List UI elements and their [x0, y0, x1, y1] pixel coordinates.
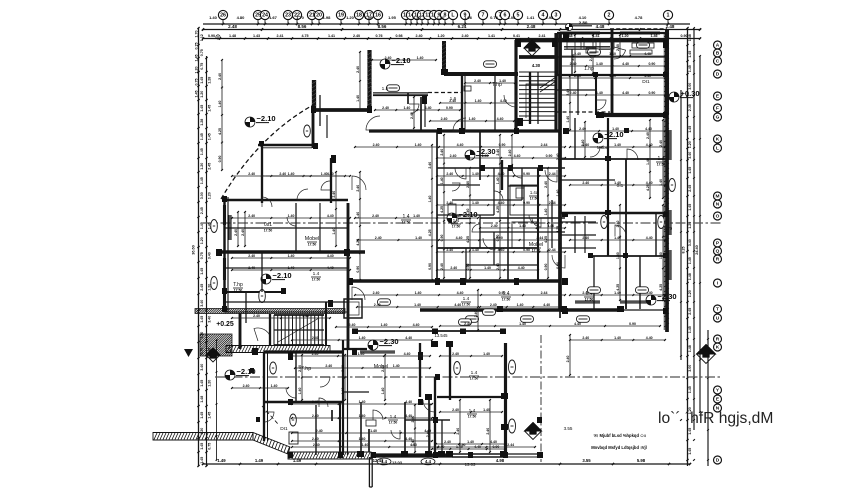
svg-text:2.40: 2.40 — [356, 66, 360, 73]
svg-text:2.40: 2.40 — [491, 224, 498, 228]
lower-left stair2 treads — [274, 315, 324, 345]
svg-text:4.40: 4.40 — [327, 266, 334, 270]
svg-text:1.40: 1.40 — [456, 445, 463, 449]
svg-text:1.40: 1.40 — [612, 127, 619, 131]
mobel room bottom y392 — [343, 391, 369, 393]
svg-text:3.40: 3.40 — [200, 300, 204, 307]
svg-text:T: T — [716, 306, 719, 312]
balcony fixtures row below right block — [466, 316, 590, 323]
right unit interior x656 — [655, 213, 657, 256]
svg-text:0.76: 0.76 — [375, 34, 382, 38]
svg-text:2.40: 2.40 — [440, 263, 444, 270]
svg-text:4.25: 4.25 — [356, 239, 360, 246]
svg-text:1.40: 1.40 — [411, 439, 415, 446]
svg-text:2.40: 2.40 — [646, 132, 650, 139]
svg-text:1.45: 1.45 — [200, 105, 204, 112]
left wing windows — [223, 205, 225, 308]
svg-text:Mobel: Mobel — [529, 242, 543, 248]
svg-text:1.40: 1.40 — [519, 224, 526, 228]
left wing partitions extra — [224, 176, 348, 323]
svg-text:3.40: 3.40 — [207, 316, 211, 323]
svg-text:2.45: 2.45 — [200, 284, 204, 291]
middle big wall y283 — [348, 279, 560, 282]
svg-text:1.40: 1.40 — [609, 52, 616, 56]
svg-text:1.70: 1.70 — [296, 15, 305, 20]
balcony rail right lower — [559, 310, 561, 318]
svg-text:1.45: 1.45 — [200, 412, 204, 419]
dashed canopy y92 middle — [428, 92, 462, 94]
svg-text:1.40: 1.40 — [359, 336, 366, 340]
svg-text:4.40: 4.40 — [498, 248, 505, 252]
svg-text:1.40: 1.40 — [359, 400, 366, 404]
svg-text:1.40: 1.40 — [428, 196, 432, 203]
svg-text:4.75: 4.75 — [301, 34, 308, 38]
svg-text:7: 7 — [482, 13, 485, 19]
svg-text:2.45: 2.45 — [207, 163, 211, 170]
spot level -2.30 center — [593, 130, 624, 143]
svg-text:1.40: 1.40 — [472, 248, 479, 252]
svg-text:1.40: 1.40 — [614, 336, 621, 340]
svg-text:0.98: 0.98 — [395, 34, 402, 38]
right vertical dimension chains — [680, 27, 709, 466]
svg-text:1.98: 1.98 — [323, 15, 332, 20]
svg-text:1.40: 1.40 — [472, 201, 479, 205]
svg-text:1.70: 1.70 — [195, 30, 199, 37]
left entry block hatched — [178, 334, 255, 356]
svg-text:2.40: 2.40 — [248, 214, 255, 218]
svg-text:1.4: 1.4 — [471, 370, 478, 376]
room labels — [233, 66, 673, 467]
right unit divider y213 — [560, 212, 667, 215]
svg-text:2.40: 2.40 — [441, 117, 448, 121]
svg-text:4.40: 4.40 — [425, 106, 432, 110]
svg-text:2.40: 2.40 — [450, 266, 457, 270]
svg-text:1.40: 1.40 — [393, 364, 400, 368]
svg-text:1.40: 1.40 — [415, 236, 422, 240]
spot level -2.10 left upper — [245, 114, 276, 127]
bottom rooms outline — [340, 343, 506, 457]
svg-text:4.40: 4.40 — [457, 143, 464, 147]
svg-text:1.20: 1.20 — [200, 163, 204, 170]
left wing south hatched band y311 — [190, 309, 351, 314]
svg-text:0.75: 0.75 — [195, 42, 199, 49]
svg-text:D: D — [716, 457, 720, 463]
lower room partition x420 — [419, 343, 421, 397]
svg-text:2.40: 2.40 — [372, 214, 379, 218]
svg-text:0.90: 0.90 — [466, 264, 470, 271]
svg-text:1.45: 1.45 — [200, 268, 204, 275]
svg-text:1.48: 1.48 — [688, 34, 692, 41]
svg-text:1.40: 1.40 — [544, 209, 548, 216]
left wing east wall upper x331 — [330, 158, 332, 203]
svg-text:C: C — [716, 58, 720, 64]
svg-text:2.40: 2.40 — [450, 154, 457, 158]
svg-text:1.45: 1.45 — [195, 90, 199, 97]
svg-text:13.545: 13.545 — [434, 333, 448, 338]
spot level -2.30 mid — [465, 147, 496, 160]
svg-text:E: E — [716, 93, 719, 99]
svg-text:4.40: 4.40 — [622, 62, 629, 66]
right block room partitions — [557, 57, 667, 309]
svg-text:4.40: 4.40 — [405, 336, 412, 340]
svg-text:1.40: 1.40 — [359, 437, 366, 441]
canopy dashed line top-right — [610, 28, 667, 30]
svg-text:3.00: 3.00 — [200, 192, 204, 199]
svg-text:0.90: 0.90 — [523, 248, 530, 252]
svg-text:2.40: 2.40 — [452, 352, 459, 356]
upper room partition x495 — [494, 76, 496, 131]
svg-text:2.45: 2.45 — [688, 104, 692, 111]
dashed diagonal lower — [262, 406, 278, 424]
svg-text:1.40: 1.40 — [646, 158, 650, 165]
ellipse label 1.4 bottom — [377, 458, 391, 465]
middle partition y218 — [480, 217, 565, 219]
svg-text:3: 3 — [555, 13, 558, 19]
piers on y331 — [352, 329, 506, 335]
svg-text:4.25: 4.25 — [544, 236, 548, 243]
svg-text:0s1: 0s1 — [264, 222, 272, 228]
svg-text:0.90: 0.90 — [492, 445, 499, 449]
fixture oval near stub — [304, 125, 311, 137]
retaining hatched diagonal — [253, 433, 290, 455]
svg-text:4.48: 4.48 — [596, 24, 605, 29]
svg-text:0.90: 0.90 — [496, 235, 500, 242]
svg-text:0.75: 0.75 — [207, 443, 211, 450]
svg-text:2.40: 2.40 — [446, 172, 453, 176]
svg-text:0.90: 0.90 — [544, 264, 548, 271]
svg-text:17.50: 17.50 — [462, 303, 471, 307]
svg-text:0.75: 0.75 — [195, 78, 199, 85]
svg-text:4.80: 4.80 — [237, 15, 246, 20]
right unit interior x608 — [607, 118, 609, 256]
svg-text:4.40: 4.40 — [622, 91, 629, 95]
svg-text:1.45: 1.45 — [688, 326, 692, 333]
svg-text:1.40: 1.40 — [616, 252, 620, 259]
svg-text:1.45: 1.45 — [207, 133, 211, 140]
svg-text:2.44: 2.44 — [541, 143, 548, 147]
svg-text:17.50: 17.50 — [452, 225, 461, 229]
svg-text:1.40: 1.40 — [288, 254, 295, 258]
entry door arc — [254, 328, 270, 341]
stair bottom pier — [517, 118, 523, 126]
bottom rooms partitions extra — [361, 405, 450, 455]
middle interior wall x480 — [479, 131, 481, 180]
north arrow left entry — [206, 348, 220, 362]
svg-text:1.4: 1.4 — [469, 408, 476, 414]
svg-text:4.25: 4.25 — [616, 284, 620, 291]
svg-text:4.40: 4.40 — [456, 236, 463, 240]
svg-text:4.25: 4.25 — [440, 206, 444, 213]
wall y131 under middle rooms — [369, 129, 560, 132]
svg-text:0.75: 0.75 — [200, 63, 204, 70]
top dimension chain line B (major) — [202, 24, 701, 31]
svg-text:1.40: 1.40 — [413, 15, 422, 20]
svg-text:2.40: 2.40 — [616, 44, 620, 51]
svg-text:0.90: 0.90 — [680, 34, 687, 38]
pier columns (filled wall segments) — [216, 33, 668, 458]
svg-text:4.25: 4.25 — [428, 229, 432, 236]
left wing notch west wall x262 — [261, 145, 263, 203]
svg-text:2.40: 2.40 — [508, 150, 512, 157]
svg-text:2.40: 2.40 — [312, 336, 319, 340]
interior dimension strings — [218, 34, 666, 454]
right maze small rooms near spine — [560, 216, 596, 253]
svg-text:4.40: 4.40 — [514, 154, 521, 158]
svg-text:2.40: 2.40 — [248, 172, 255, 176]
svg-text:1.20: 1.20 — [207, 192, 211, 199]
svg-text:2.40: 2.40 — [426, 430, 430, 437]
svg-text:4.25: 4.25 — [466, 236, 470, 243]
closet row top-right unit — [567, 42, 614, 49]
svg-text:36.60: 36.60 — [192, 245, 196, 254]
svg-text:1.40: 1.40 — [609, 74, 616, 78]
svg-text:1.45: 1.45 — [688, 51, 692, 58]
svg-text:2.41: 2.41 — [276, 34, 283, 38]
svg-text:1.48: 1.48 — [688, 345, 692, 352]
svg-text:2.40: 2.40 — [574, 74, 581, 78]
lower hatched band below stair2 — [226, 346, 330, 353]
svg-text:1.4: 1.4 — [313, 271, 320, 277]
svg-text:1.41: 1.41 — [488, 34, 495, 38]
svg-text:1.40: 1.40 — [381, 388, 385, 395]
upper-left wing stub wall vertical x313 hatched — [312, 80, 317, 112]
svg-text:1.45: 1.45 — [200, 77, 204, 84]
svg-text:4.40: 4.40 — [490, 440, 497, 444]
svg-text:1.45: 1.45 — [688, 257, 692, 264]
svg-text:1.20: 1.20 — [437, 34, 444, 38]
svg-text:−2.10: −2.10 — [392, 56, 411, 65]
svg-text:2.40: 2.40 — [312, 352, 319, 356]
svg-text:19: 19 — [338, 13, 344, 19]
svg-text:2.40: 2.40 — [234, 229, 238, 236]
svg-text:2.45: 2.45 — [200, 207, 204, 214]
hatched band bottom wall — [288, 452, 373, 459]
svg-text:−2.10: −2.10 — [273, 271, 292, 280]
left wing west wall x224 — [225, 197, 229, 312]
svg-text:2.44: 2.44 — [549, 248, 556, 252]
svg-text:L: L — [716, 145, 719, 151]
svg-text:G: G — [716, 114, 720, 120]
svg-text:4.40: 4.40 — [498, 172, 505, 176]
svg-text:17.50: 17.50 — [234, 289, 243, 293]
svg-text:2.44: 2.44 — [507, 443, 514, 447]
lower center wall x343 double — [342, 340, 344, 455]
svg-text:1.40: 1.40 — [519, 322, 526, 326]
svg-text:2.40: 2.40 — [410, 112, 414, 119]
spine wall x560 — [558, 33, 562, 310]
svg-text:1.45: 1.45 — [200, 443, 204, 450]
svg-text:0.90: 0.90 — [523, 172, 530, 176]
svg-text:2.40: 2.40 — [446, 201, 453, 205]
svg-text:0.90: 0.90 — [208, 34, 215, 38]
svg-text:1.45: 1.45 — [207, 412, 211, 419]
svg-text:1.45: 1.45 — [688, 428, 692, 435]
svg-text:8.56: 8.56 — [378, 24, 387, 29]
svg-text:1.45: 1.45 — [200, 133, 204, 140]
right block fixtures — [669, 179, 676, 192]
vertical centerline lower middle — [540, 335, 542, 462]
svg-text:1.45: 1.45 — [200, 177, 204, 184]
bottom zone piers — [357, 341, 508, 457]
horizontal centerline lower — [215, 376, 722, 378]
svg-text:1.40: 1.40 — [271, 384, 278, 388]
right unit window band y47 — [564, 46, 610, 48]
svg-text:2.40: 2.40 — [582, 181, 589, 185]
section marker triangle left — [184, 349, 193, 357]
horizontal centerline upper — [203, 222, 722, 224]
stair2 enclosure walls — [270, 302, 326, 345]
svg-text:F: F — [716, 105, 719, 111]
svg-text:2.40: 2.40 — [556, 153, 560, 160]
svg-text:0.75: 0.75 — [200, 252, 204, 259]
right wall x667 mid — [665, 115, 669, 332]
svg-text:ত। Mjubf bLsd %hpkqd ঃ: ত। Mjubf bLsd %hpkqd ঃ — [593, 433, 647, 438]
svg-text:1.40: 1.40 — [440, 177, 444, 184]
stair treads upper stair — [519, 57, 557, 124]
upper interior wall x462 double — [461, 74, 463, 131]
svg-text:2.40: 2.40 — [373, 143, 380, 147]
outer wall top-right unit — [557, 29, 667, 130]
svg-text:1.45: 1.45 — [200, 148, 204, 155]
svg-text:Q: Q — [716, 248, 720, 254]
svg-text:4.40: 4.40 — [474, 445, 481, 449]
svg-text:16: 16 — [375, 13, 381, 19]
svg-text:4.25: 4.25 — [496, 206, 500, 213]
svg-text:17.50: 17.50 — [657, 163, 666, 167]
svg-text:1.28: 1.28 — [207, 77, 211, 84]
di1 right wall x369 — [368, 429, 370, 452]
svg-text:Mobel: Mobel — [305, 236, 319, 242]
svg-text:1.40: 1.40 — [288, 266, 295, 270]
window double lines pass2 — [228, 130, 671, 353]
svg-text:17.50: 17.50 — [308, 243, 317, 247]
svg-text:2.40: 2.40 — [466, 181, 470, 188]
vestibule door arc — [409, 104, 419, 114]
svg-text:1.20: 1.20 — [207, 380, 211, 387]
svg-text:3.00: 3.00 — [688, 365, 692, 372]
svg-text:1.4: 1.4 — [463, 296, 470, 302]
lower room west wall x264 — [263, 352, 265, 441]
svg-text:1.40: 1.40 — [496, 177, 500, 184]
svg-text:Mnvbqd Msfyd Ldtqsjbd ।Vjl: Mnvbqd Msfyd Ldtqsjbd ।Vjl — [591, 445, 647, 450]
svg-text:0.90: 0.90 — [428, 263, 432, 270]
svg-text:1.95: 1.95 — [388, 15, 397, 20]
grid bubble row (top) — [218, 10, 672, 24]
window band y94 middle — [373, 93, 428, 96]
left wing notch room top wall y145 — [258, 144, 315, 146]
svg-text:2.40: 2.40 — [616, 221, 620, 228]
svg-text:D: D — [716, 71, 720, 77]
svg-text:2.40: 2.40 — [349, 323, 356, 327]
svg-text:1.40: 1.40 — [415, 143, 422, 147]
vestibule pier — [422, 96, 427, 104]
svg-text:1.40: 1.40 — [413, 214, 420, 218]
svg-text:+0.25: +0.25 — [216, 321, 234, 328]
room area sublabels with underline — [233, 162, 666, 425]
svg-text:1.4: 1.4 — [390, 414, 397, 420]
svg-text:1.20: 1.20 — [200, 237, 204, 244]
left wing wall y252 — [216, 250, 365, 253]
svg-text:2.40: 2.40 — [415, 34, 422, 38]
svg-text:2.44: 2.44 — [541, 291, 548, 295]
svg-text:1.20: 1.20 — [346, 15, 355, 20]
svg-text:4.40: 4.40 — [646, 336, 653, 340]
svg-text:1.48: 1.48 — [229, 34, 236, 38]
svg-text:1.45: 1.45 — [200, 380, 204, 387]
svg-text:23: 23 — [285, 13, 291, 19]
svg-text:1.40: 1.40 — [556, 190, 560, 197]
svg-text:1.20: 1.20 — [688, 141, 692, 148]
svg-text:1.12: 1.12 — [200, 34, 204, 41]
svg-text:17.50: 17.50 — [389, 421, 398, 425]
svg-text:2.40: 2.40 — [570, 91, 577, 95]
svg-text:26: 26 — [220, 13, 226, 19]
left wing wall y200 — [222, 199, 348, 202]
svg-text:1.20: 1.20 — [437, 15, 446, 20]
svg-text:17.50: 17.50 — [312, 278, 321, 282]
svg-text:4.40: 4.40 — [498, 201, 505, 205]
svg-text:1.40: 1.40 — [566, 116, 570, 123]
svg-text:2.40: 2.40 — [582, 236, 589, 240]
svg-text:2.40: 2.40 — [374, 303, 381, 307]
svg-text:8.56: 8.56 — [298, 24, 307, 29]
svg-text:1.40: 1.40 — [469, 117, 476, 121]
svg-text:B: B — [716, 50, 720, 56]
svg-text:1.4: 1.4 — [503, 291, 510, 297]
svg-text:1.40: 1.40 — [467, 440, 474, 444]
svg-text:1.4: 1.4 — [453, 218, 460, 224]
svg-text:1.40: 1.40 — [370, 429, 377, 433]
svg-text:A: A — [716, 42, 720, 48]
right unit thick wall y115 — [596, 113, 667, 117]
balcony fixtures right of bottom rooms — [509, 360, 516, 374]
north compass symbol right — [697, 345, 716, 364]
svg-text:2.40: 2.40 — [373, 291, 380, 295]
upper-left stub wall vertical x369 hatched — [367, 50, 372, 112]
svg-text:2.40: 2.40 — [279, 172, 286, 176]
svg-text:1.40: 1.40 — [298, 388, 302, 395]
svg-text:4.4: 4.4 — [425, 459, 432, 464]
svg-text:2.40: 2.40 — [581, 140, 585, 147]
entry room east wall x240 — [239, 313, 242, 349]
svg-text:18: 18 — [356, 13, 362, 19]
svg-text:4.40: 4.40 — [646, 236, 653, 240]
wc fixtures bottom-left rooms — [290, 414, 297, 426]
svg-text:1.06: 1.06 — [508, 15, 517, 20]
svg-text:20: 20 — [316, 13, 322, 19]
svg-text:1.45: 1.45 — [688, 448, 692, 455]
svg-text:4.40: 4.40 — [413, 323, 420, 327]
svg-text:1.06: 1.06 — [464, 15, 473, 20]
svg-text:2.48: 2.48 — [666, 24, 675, 29]
svg-text:1.45: 1.45 — [688, 167, 692, 174]
svg-text:1.06: 1.06 — [365, 15, 374, 20]
svg-text:13.03: 13.03 — [392, 460, 403, 465]
svg-text:1.40: 1.40 — [414, 303, 421, 307]
right unit interior x626 — [625, 159, 627, 309]
spot level -2.10 bottom left — [225, 367, 256, 380]
svg-text:4.40: 4.40 — [574, 322, 581, 326]
door arcs — [264, 95, 638, 422]
middle partition y170 mid — [437, 167, 565, 169]
right unit divider y75 — [557, 74, 667, 76]
svg-text:4.40: 4.40 — [645, 127, 652, 131]
svg-text:2.40: 2.40 — [382, 106, 389, 110]
svg-text:3.40: 3.40 — [200, 364, 204, 371]
party wall stub x444 hatched — [442, 41, 446, 75]
svg-text:2.40: 2.40 — [353, 34, 360, 38]
svg-text:1.hp: 1.hp — [584, 66, 594, 72]
